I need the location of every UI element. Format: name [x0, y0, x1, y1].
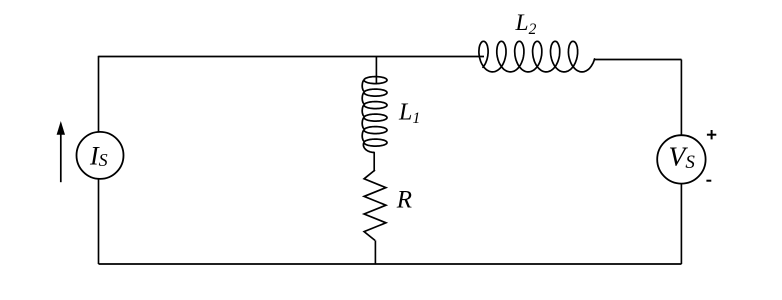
- wire right lower segment: [680, 183, 682, 264]
- wire middle branch top: [375, 57, 377, 85]
- wire right upper segment: [680, 60, 682, 136]
- voltage source VS: [657, 135, 705, 183]
- resistor R: [364, 170, 386, 240]
- current direction arrow: [57, 121, 65, 182]
- current source IS: [77, 132, 124, 179]
- inductor L2: [479, 41, 595, 72]
- wire top-right segment: [594, 59, 682, 61]
- svg-text:L2: L2: [515, 10, 537, 38]
- polarity plus: [707, 130, 716, 139]
- wire left lower segment: [98, 179, 100, 264]
- polarity minus: [706, 180, 711, 182]
- wire between L1 and R: [373, 153, 376, 171]
- svg-text:L1: L1: [398, 100, 420, 127]
- svg-text:IS: IS: [89, 141, 108, 170]
- svg-text:R: R: [396, 187, 412, 214]
- wire left upper segment: [98, 56, 100, 132]
- wire below R to bottom: [374, 240, 376, 264]
- svg-text:VS: VS: [669, 140, 696, 172]
- wire top-left segment: [99, 56, 485, 58]
- wire bottom: [99, 263, 682, 265]
- inductor L1: [362, 77, 387, 153]
